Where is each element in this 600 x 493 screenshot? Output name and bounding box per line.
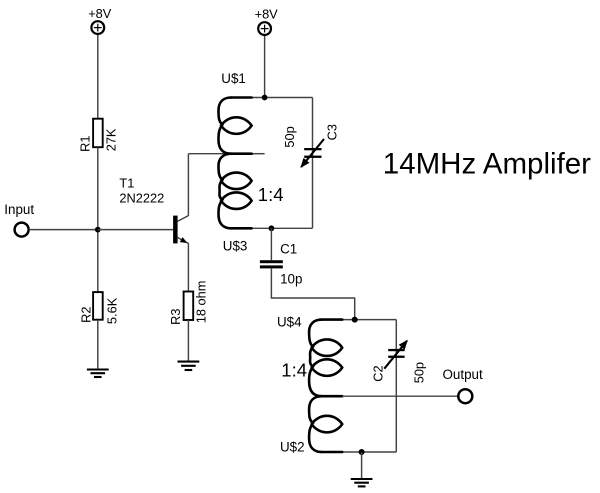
ground symbol below R2 <box>87 368 109 377</box>
ground symbol below transformer 2 <box>351 478 373 486</box>
wire: T1 tank right vertical <box>312 98 314 229</box>
value 18 ohm <box>194 281 209 324</box>
junction: top rail / +8V <box>262 95 268 101</box>
wire: +8V supply 1 stem to R1 <box>97 34 99 119</box>
transistor T1 2N2222 base bar <box>173 216 178 244</box>
label R3 <box>168 309 183 325</box>
wire: base node to Q1 base <box>98 229 173 231</box>
junction: bottom rail / C1 <box>269 225 275 231</box>
wire: T2 tank bottom rail <box>342 451 396 453</box>
inductor U$1 (transformer 1 primary winding) <box>219 98 252 154</box>
wire: R1 bottom to R2 top (base node vertical) <box>97 147 99 292</box>
label Output <box>443 367 483 382</box>
svg-text:Input: Input <box>4 202 34 217</box>
svg-text:R3: R3 <box>168 309 183 325</box>
svg-text:U$3: U$3 <box>223 238 248 253</box>
svg-text:10p: 10p <box>280 271 302 286</box>
resistor R1 <box>93 119 103 148</box>
svg-text:+8V: +8V <box>255 7 279 22</box>
trimmer capacitor C2 <box>384 340 408 369</box>
value 5.6K <box>104 297 119 324</box>
label U$1 <box>221 71 246 86</box>
label 1:4 (transformer 1 ratio) <box>258 184 284 205</box>
svg-text:U$2: U$2 <box>280 440 305 455</box>
wire: T2 tank right vertical <box>395 320 397 452</box>
label C1 <box>280 242 297 257</box>
transistor T1 emitter lead with arrow <box>177 237 188 243</box>
label U$4 <box>277 315 302 330</box>
svg-text:14MHz Amplifer: 14MHz Amplifer <box>383 148 591 181</box>
ground symbol below R3 <box>178 361 200 370</box>
svg-text:R1: R1 <box>77 136 92 152</box>
label U$3 <box>223 238 248 253</box>
label U$2 <box>280 440 305 455</box>
label 1:4 (transformer 2 ratio) <box>281 360 307 381</box>
label Input <box>4 202 34 217</box>
wire: collector to transformer tap <box>188 153 231 155</box>
svg-text:R2: R2 <box>78 307 93 323</box>
svg-text:27K: 27K <box>103 128 118 151</box>
transistor T1 collector lead <box>177 216 188 222</box>
power +8V supply symbol (right) <box>255 7 279 35</box>
wire: T1 tank bottom rail <box>252 227 313 229</box>
svg-text:U$1: U$1 <box>221 71 246 86</box>
wire: collector up <box>187 154 189 216</box>
label 2N2222 <box>119 190 164 205</box>
capacitor C1 plates <box>260 260 283 268</box>
svg-text:C2: C2 <box>371 365 386 381</box>
svg-text:C3: C3 <box>324 124 339 140</box>
label R2 <box>78 307 93 323</box>
svg-text:1:4: 1:4 <box>258 184 284 205</box>
inductor U$4 (transformer 2 primary winding) <box>309 320 342 397</box>
wire: +8V supply 2 stem <box>264 35 266 98</box>
svg-text:50p: 50p <box>411 362 426 383</box>
inductor U$3 (transformer 1 secondary winding) <box>219 154 252 229</box>
svg-text:5.6K: 5.6K <box>104 297 119 324</box>
wire: T2 center tap to Output <box>342 395 458 397</box>
wire: C1 bottom plate down, right, to T2 top <box>271 268 354 319</box>
wire: T1 tank top rail <box>252 97 313 99</box>
wire: bottom rail to C1 top plate <box>270 228 272 260</box>
label C3 <box>324 124 339 140</box>
junction: T2 top rail / C1 feed <box>352 317 358 323</box>
title 14MHz Amplifer <box>383 148 591 181</box>
resistor R2 <box>93 292 103 320</box>
svg-text:T1: T1 <box>119 176 134 191</box>
svg-text:50p: 50p <box>282 126 297 147</box>
value 10p <box>280 271 302 286</box>
label R1 <box>77 136 92 152</box>
wire: center tap pin stub <box>252 153 265 155</box>
wire: emitter down to R3 <box>187 243 189 291</box>
label T1 <box>119 176 134 191</box>
terminal Output pad <box>458 389 472 403</box>
wire: Input to base node <box>29 229 98 231</box>
svg-text:Output: Output <box>443 367 483 382</box>
inductor U$2 (transformer 2 secondary winding) <box>309 396 342 452</box>
svg-text:18 ohm: 18 ohm <box>194 281 209 324</box>
junction: base node <box>95 227 101 233</box>
resistor R3 <box>184 292 194 321</box>
terminal Input pad <box>15 223 29 237</box>
value 27K <box>103 128 118 151</box>
svg-text:1:4: 1:4 <box>281 360 307 381</box>
svg-text:U$4: U$4 <box>277 315 302 330</box>
value 50p (C3) <box>282 126 297 147</box>
svg-text:C1: C1 <box>280 242 297 257</box>
wire: R2 to ground <box>97 320 99 369</box>
power +8V supply symbol (left) <box>88 6 112 34</box>
wire: T2 ground stem <box>361 452 363 479</box>
wire: T2 tank top rail <box>342 319 396 321</box>
junction: T2 bottom rail / ground <box>359 449 365 455</box>
wire: R3 to ground <box>187 320 189 361</box>
label C2 <box>371 365 386 381</box>
svg-text:2N2222: 2N2222 <box>119 190 164 205</box>
svg-text:+8V: +8V <box>88 6 112 21</box>
value 50p (C2) <box>411 362 426 383</box>
trimmer capacitor C3 <box>300 139 324 168</box>
